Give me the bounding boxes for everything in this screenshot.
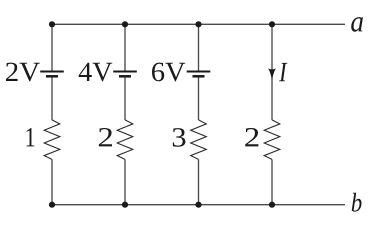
resistor R4: [264, 120, 280, 159]
battery V1 value label 2V: [6, 63, 40, 82]
resistor R1: [44, 120, 60, 159]
junction dot b4: [269, 202, 275, 208]
battery V2 value label 4V: [79, 63, 113, 82]
wire branch3 middle: [198, 78, 200, 121]
battery V1 short plate: [46, 75, 58, 78]
current label I: [279, 63, 287, 81]
junction dot a1: [49, 21, 55, 27]
current arrowhead I: [268, 68, 276, 80]
battery V3 value label 6V: [152, 63, 185, 82]
wire branch3 lower: [198, 159, 200, 204]
junction dot b3: [195, 202, 201, 208]
battery V3 long plate: [187, 71, 211, 73]
wire branch1 lower: [51, 159, 53, 204]
wire branch1 middle: [51, 78, 53, 121]
battery V1 long plate: [40, 71, 64, 73]
battery V2 long plate: [113, 71, 137, 73]
resistor R3: [191, 120, 207, 159]
junction dot b1: [49, 202, 55, 208]
wire branch2 middle: [124, 78, 126, 121]
wire branch3 upper: [198, 24, 200, 70]
resistor R2 value label 2: [99, 128, 112, 146]
wire bottom bus (node b): [52, 204, 345, 206]
wire branch4 lower: [271, 159, 273, 204]
junction dot a2: [122, 21, 128, 27]
junction dot b2: [122, 202, 128, 208]
node b label: [352, 193, 362, 212]
wire branch1 upper: [51, 24, 53, 70]
node a label: [351, 17, 363, 32]
resistor R4 value label 2: [245, 128, 258, 146]
junction dot a3: [195, 21, 201, 27]
battery V2 short plate: [119, 75, 131, 78]
battery V3 short plate: [193, 75, 205, 78]
junction dot a4: [269, 21, 275, 27]
resistor R3 value label 3: [173, 128, 186, 147]
wire top bus (node a): [52, 23, 345, 25]
wire branch2 lower: [124, 159, 126, 204]
resistor R1 value label 1: [27, 128, 35, 146]
resistor R2: [117, 120, 133, 159]
wire branch4 upper: [271, 24, 273, 120]
wire branch2 upper: [124, 24, 126, 70]
